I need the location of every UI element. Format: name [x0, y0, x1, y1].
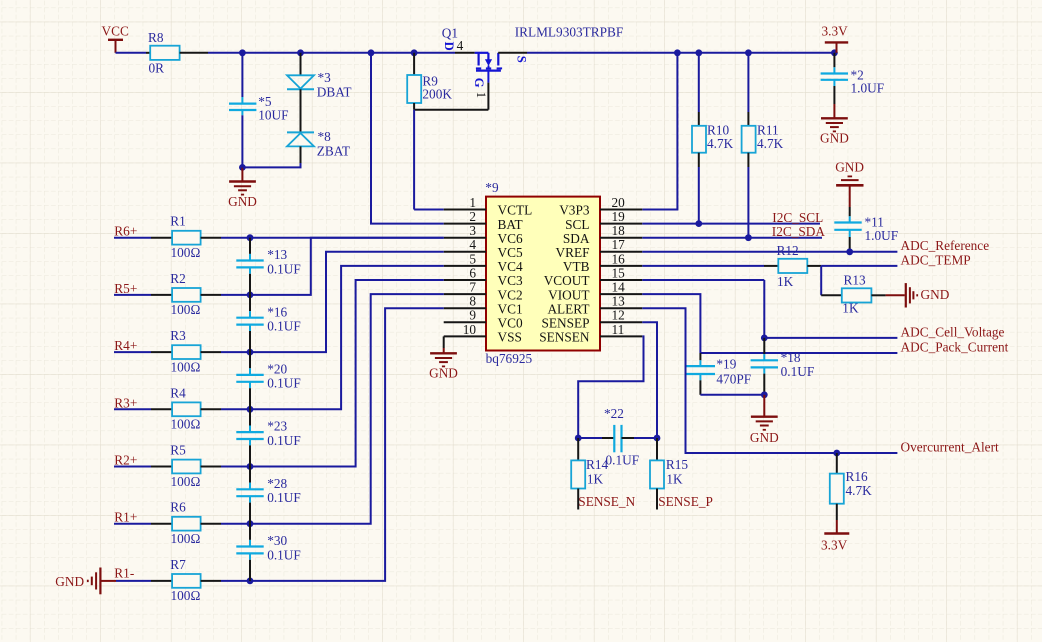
node BAT [368, 49, 375, 56]
capacitor *20 [236, 362, 301, 391]
resistor R1 [170, 214, 200, 260]
wire C22 left [578, 437, 614, 439]
svg-text:13: 13 [612, 294, 626, 309]
svg-text:GND: GND [921, 287, 950, 302]
wire C22 right [622, 437, 658, 439]
svg-text:R14: R14 [586, 457, 609, 472]
wire R3 out [201, 351, 250, 353]
svg-text:*30: *30 [267, 533, 287, 548]
wire R7 out [201, 580, 250, 582]
power 3.3V top [822, 24, 849, 53]
capacitor *28 [236, 476, 301, 505]
svg-text:1.0UF: 1.0UF [865, 228, 899, 243]
wire cap *16 top [249, 295, 251, 318]
wire R15 SENSE_P [656, 489, 658, 510]
svg-text:8: 8 [469, 294, 476, 309]
wire C11 to VREF [849, 230, 851, 252]
resistor R10 [692, 123, 734, 153]
svg-text:IRLML9303TRPBF: IRLML9303TRPBF [515, 24, 624, 39]
ground GND (VSS) [429, 353, 458, 380]
wire cap *30 top [249, 524, 251, 547]
wire rail to R11 [747, 53, 749, 126]
svg-text:ADC_Pack_Current: ADC_Pack_Current [901, 339, 1009, 354]
svg-text:1K: 1K [777, 274, 794, 289]
svg-text:1.0UF: 1.0UF [851, 81, 885, 96]
node R4+ label [114, 338, 137, 353]
power 3.3V bottom [821, 534, 849, 553]
wire R4 out [201, 408, 250, 410]
svg-text:ALERT: ALERT [547, 301, 589, 316]
resistor R13 [842, 273, 872, 316]
svg-text:R7: R7 [170, 557, 186, 572]
svg-text:4: 4 [457, 38, 464, 53]
wire R5+ [114, 294, 172, 296]
svg-text:1K: 1K [842, 301, 859, 316]
wire R13 to gnd [871, 294, 904, 296]
svg-text:16: 16 [612, 251, 626, 266]
svg-text:100Ω: 100Ω [171, 302, 201, 317]
node R2+ label [114, 453, 137, 468]
wire D8 to gnd node [242, 146, 300, 167]
wire C2 to gnd [833, 80, 835, 119]
svg-text:D: D [442, 42, 456, 51]
pin 11 SENSEN [539, 322, 642, 345]
svg-text:DBAT: DBAT [317, 85, 352, 100]
resistor R4 [170, 385, 200, 431]
svg-text:VSS: VSS [498, 330, 522, 345]
svg-text:*3: *3 [318, 70, 332, 85]
svg-text:*23: *23 [267, 419, 287, 434]
svg-text:VC5: VC5 [498, 245, 523, 260]
svg-text:ADC_TEMP: ADC_TEMP [901, 252, 971, 267]
svg-text:14: 14 [612, 280, 626, 295]
node R10 SCL [695, 220, 702, 227]
diode *8 ZBAT [287, 129, 350, 158]
diode *3 DBAT [287, 70, 352, 99]
svg-text:0.1UF: 0.1UF [267, 433, 301, 448]
wire Q1 source to rail2 [498, 52, 834, 54]
svg-text:R13: R13 [844, 273, 867, 288]
pin 14 VIOUT [548, 280, 642, 303]
pin 8 VC1 [444, 294, 523, 317]
node ADC_Cell_Voltage label [901, 324, 1005, 339]
svg-text:18: 18 [612, 223, 626, 238]
op-amp U*9 bq76925 body [485, 180, 600, 366]
svg-text:Overcurrent_Alert: Overcurrent_Alert [901, 439, 1000, 454]
svg-text:R16: R16 [846, 469, 869, 484]
wire VC1 [250, 294, 444, 524]
wire ALERT [642, 308, 897, 453]
transistor Q1 [442, 26, 529, 98]
svg-text:R4+: R4+ [114, 338, 137, 353]
wire SDA [642, 237, 822, 239]
svg-text:VC6: VC6 [498, 231, 523, 246]
wire VREF [642, 251, 897, 253]
svg-text:bq76925: bq76925 [486, 351, 533, 366]
wire C19 lead top [699, 353, 701, 366]
svg-text:0.1UF: 0.1UF [781, 364, 815, 379]
svg-text:12: 12 [612, 308, 625, 323]
node C11 VREF [846, 248, 853, 255]
svg-text:9: 9 [469, 308, 476, 323]
pin 5 VC4 [444, 251, 523, 274]
svg-text:0.1UF: 0.1UF [267, 376, 301, 391]
wire cap *20 bot [249, 382, 251, 410]
node R16 top [833, 450, 840, 457]
capacitor *18 [751, 350, 815, 379]
node row1 [247, 234, 254, 241]
node R15 top [654, 435, 661, 442]
svg-text:R4: R4 [170, 385, 186, 400]
pin 1 VCTL [444, 195, 533, 218]
wire to R16 [836, 453, 838, 474]
capacitor *30 [236, 533, 301, 562]
svg-text:G: G [472, 78, 486, 88]
wire rail to Q1 drain [455, 52, 475, 54]
svg-text:R5+: R5+ [114, 281, 137, 296]
capacitor *16 [236, 304, 301, 333]
capacitor *19 [686, 356, 751, 386]
resistor R14 [571, 457, 608, 489]
pin 2 BAT [444, 209, 523, 232]
node R6+ label [114, 224, 137, 239]
resistor R16 [830, 469, 872, 504]
pin 10 VSS [444, 322, 522, 345]
svg-text:R1-: R1- [114, 566, 134, 581]
wire VSS to gnd [443, 336, 445, 353]
svg-text:10: 10 [463, 322, 477, 337]
pin 12 SENSEP [541, 308, 642, 331]
svg-text:3.3V: 3.3V [822, 24, 849, 39]
pin 16 VTB [563, 251, 642, 274]
ground GND (C2) [820, 118, 849, 145]
wire cap *13 top [249, 238, 251, 261]
svg-text:SCL: SCL [565, 217, 589, 232]
svg-text:ZBAT: ZBAT [317, 143, 350, 158]
svg-text:100Ω: 100Ω [171, 245, 201, 260]
wire rail to D3 [300, 53, 302, 76]
resistor R7 [170, 557, 200, 603]
node row6 [247, 520, 254, 527]
svg-text:3: 3 [469, 223, 476, 238]
svg-text:11: 11 [612, 322, 625, 337]
pin 15 VCOUT [544, 265, 643, 288]
node cap5 [239, 49, 246, 56]
svg-text:200K: 200K [422, 86, 452, 101]
svg-text:1: 1 [469, 195, 476, 210]
svg-text:0.1UF: 0.1UF [267, 547, 301, 562]
wire cap *28 top [249, 467, 251, 490]
svg-text:VCOUT: VCOUT [544, 273, 590, 288]
svg-text:*13: *13 [267, 247, 287, 262]
svg-text:R12: R12 [777, 243, 799, 258]
svg-text:V3P3: V3P3 [559, 203, 590, 218]
wire VCOUT [642, 280, 764, 338]
pin 20 V3P3 [559, 195, 642, 218]
svg-text:S: S [515, 56, 529, 63]
svg-text:ADC_Cell_Voltage: ADC_Cell_Voltage [901, 324, 1005, 339]
ground GND (C18/C19) [750, 395, 779, 445]
node ADC_Pack_Current label [901, 339, 1009, 354]
wire R14 SENSE_N [577, 489, 579, 510]
svg-text:*20: *20 [267, 362, 287, 377]
node R10 top [695, 49, 702, 56]
wire SCL [642, 223, 820, 225]
resistor R5 [170, 443, 200, 489]
svg-text:0R: 0R [149, 61, 165, 76]
node row3 [247, 349, 254, 356]
svg-text:GND: GND [228, 194, 257, 209]
svg-text:BAT: BAT [498, 217, 523, 232]
svg-text:SENSEP: SENSEP [541, 316, 589, 331]
svg-text:SDA: SDA [563, 231, 590, 246]
wire ADC_Cell_Voltage [764, 337, 897, 339]
wire D3 to D8 [300, 89, 302, 132]
svg-text:SENSEN: SENSEN [539, 330, 590, 345]
svg-text:0.1UF: 0.1UF [267, 261, 301, 276]
wire R14 top lead [577, 438, 579, 460]
wire SENSEP [642, 322, 657, 438]
capacitor *23 [236, 419, 301, 448]
wire V3P3 [642, 53, 677, 210]
ground GND (C5) [228, 167, 257, 208]
wire cap *30 bot [249, 553, 251, 581]
svg-text:VC0: VC0 [498, 316, 523, 331]
svg-text:VC4: VC4 [498, 259, 523, 274]
wire R12 to R13 [821, 266, 842, 295]
wire C5 to gnd node [241, 110, 243, 167]
svg-text:R3: R3 [170, 328, 186, 343]
wire BAT [371, 53, 444, 224]
svg-text:100Ω: 100Ω [171, 474, 201, 489]
svg-text:3.3V: 3.3V [821, 537, 848, 552]
capacitor *22 [604, 406, 639, 468]
ground GND (R1-) [55, 568, 116, 595]
wire R1 out [201, 237, 250, 239]
svg-text:SENSE_N: SENSE_N [578, 494, 635, 509]
svg-text:0.1UF: 0.1UF [267, 490, 301, 505]
wire VTB to R12 [642, 265, 778, 267]
node R11 SDA [745, 234, 752, 241]
pin 6 VC3 [444, 265, 523, 288]
svg-text:R3+: R3+ [114, 395, 137, 410]
node row7 [247, 578, 254, 585]
wire VCC to R8 [116, 52, 151, 54]
svg-text:*9: *9 [485, 180, 499, 195]
wire VC6 [250, 237, 444, 239]
pin 7 VC2 [444, 280, 523, 303]
svg-text:470PF: 470PF [716, 372, 751, 387]
svg-text:GND: GND [835, 159, 864, 174]
wire VC5 [250, 238, 444, 295]
resistor R15 [650, 457, 688, 489]
svg-text:0.1UF: 0.1UF [267, 319, 301, 334]
svg-text:1: 1 [474, 92, 488, 98]
svg-text:GND: GND [55, 574, 84, 589]
node I2C_SCL label [772, 210, 823, 225]
pin 17 VREF [556, 237, 643, 260]
pin 9 VC0 [444, 308, 523, 331]
svg-text:4: 4 [469, 237, 476, 252]
wire SENSEN [578, 336, 643, 438]
svg-text:*8: *8 [318, 129, 332, 144]
node diodes [297, 49, 304, 56]
wire R16 to 3.3V [836, 504, 838, 534]
node R14 top [575, 435, 582, 442]
wire R8 to rail [180, 52, 455, 54]
svg-text:VTB: VTB [563, 259, 590, 274]
node row4 [247, 406, 254, 413]
node SENSE_N label [578, 494, 635, 509]
svg-text:7: 7 [469, 280, 476, 295]
svg-text:I2C_SCL: I2C_SCL [772, 210, 823, 225]
wire cap *16 bot [249, 325, 251, 353]
svg-text:0.1UF: 0.1UF [606, 453, 640, 468]
node R11 top [745, 49, 752, 56]
node row5 [247, 463, 254, 470]
svg-text:19: 19 [612, 209, 626, 224]
resistor R9 [407, 73, 452, 103]
wire gnd to C11 [849, 207, 851, 223]
wire R15 top lead [656, 438, 658, 460]
svg-text:VC2: VC2 [498, 287, 523, 302]
wire cap *23 bot [249, 439, 251, 467]
pin 18 SDA [563, 223, 642, 246]
svg-text:2: 2 [469, 209, 476, 224]
svg-text:VC1: VC1 [498, 301, 523, 316]
wire VC2 [250, 280, 444, 467]
svg-text:6: 6 [469, 265, 476, 280]
svg-text:R6+: R6+ [114, 224, 137, 239]
svg-text:ADC_Reference: ADC_Reference [901, 238, 990, 253]
wire VC4 [250, 252, 444, 352]
node row2 [247, 292, 254, 299]
resistor R8 [148, 30, 180, 76]
svg-text:10UF: 10UF [258, 108, 288, 123]
wire VIOUT [642, 294, 700, 353]
node C1819 gnd [761, 391, 768, 398]
wire rail to R10 [698, 53, 700, 126]
wire R2+ [114, 466, 172, 468]
power VCC [102, 24, 129, 53]
wire rail to C5 [241, 53, 243, 104]
svg-text:20: 20 [612, 195, 626, 210]
node R9 [411, 49, 418, 56]
svg-text:VIOUT: VIOUT [548, 287, 589, 302]
capacitor *2 [821, 68, 885, 96]
svg-text:SENSE_P: SENSE_P [658, 494, 713, 509]
svg-text:1K: 1K [587, 471, 604, 486]
svg-text:100Ω: 100Ω [171, 359, 201, 374]
ground GND (C11) [835, 159, 864, 207]
svg-text:VCC: VCC [102, 24, 129, 39]
wire R4+ [114, 351, 172, 353]
svg-text:GND: GND [820, 131, 849, 146]
svg-text:100Ω: 100Ω [171, 417, 201, 432]
svg-text:1K: 1K [666, 471, 683, 486]
svg-text:R8: R8 [148, 30, 164, 45]
svg-text:100Ω: 100Ω [171, 588, 201, 603]
node R5+ label [114, 281, 137, 296]
wire R1+ [114, 523, 172, 525]
svg-text:17: 17 [612, 237, 626, 252]
svg-text:*28: *28 [267, 476, 287, 491]
node ADC_Reference label [901, 238, 990, 253]
resistor R2 [170, 271, 200, 317]
wire rail to C2 [833, 53, 835, 74]
capacitor *13 [236, 247, 301, 276]
svg-text:*19: *19 [716, 356, 736, 371]
wire R3+ [114, 408, 172, 410]
wire cap *20 top [249, 352, 251, 375]
svg-text:R1+: R1+ [114, 510, 137, 525]
wire R5 out [201, 466, 250, 468]
node I2C_SDA label [772, 224, 826, 239]
wire R11 to SDA [747, 153, 749, 238]
svg-text:100Ω: 100Ω [171, 531, 201, 546]
node Overcurrent_Alert label [901, 439, 1000, 454]
wire R6+ [114, 237, 172, 239]
wire R9 to pin1 [414, 110, 444, 210]
resistor R6 [170, 500, 200, 546]
wire cap *28 bot [249, 496, 251, 524]
wire C19 lead bot [700, 374, 764, 395]
svg-text:5: 5 [469, 251, 476, 266]
wire R2 out [201, 294, 250, 296]
wire C18 lead bot [763, 367, 765, 394]
label IRLML9303TRPBF [515, 24, 624, 39]
wire C18 lead top [763, 338, 765, 360]
wire R12 to ADC_TEMP [807, 265, 897, 267]
svg-text:*11: *11 [865, 214, 884, 229]
node C18 top [761, 335, 768, 342]
svg-text:VREF: VREF [556, 245, 590, 260]
wire cap *23 top [249, 409, 251, 432]
wire rail to R9 [413, 53, 415, 75]
svg-text:I2C_SDA: I2C_SDA [772, 224, 826, 239]
svg-text:R6: R6 [170, 500, 186, 515]
wire R10 to SCL [698, 153, 700, 224]
svg-text:GND: GND [750, 430, 779, 445]
wire ADC_Pack_Current [700, 352, 897, 354]
wire VC3 [250, 266, 444, 409]
node 3V3 [831, 49, 838, 56]
svg-text:R15: R15 [666, 457, 689, 472]
svg-text:R2+: R2+ [114, 453, 137, 468]
svg-text:*16: *16 [267, 304, 287, 319]
node SENSE_P label [658, 494, 713, 509]
resistor R11 [742, 123, 784, 153]
svg-text:R5: R5 [170, 443, 186, 458]
wire R9 to gate/VCTL [414, 83, 488, 110]
svg-text:R2: R2 [170, 271, 186, 286]
svg-text:4.7K: 4.7K [846, 483, 873, 498]
svg-text:R1: R1 [170, 214, 186, 229]
svg-text:*18: *18 [781, 350, 801, 365]
capacitor *11 [834, 214, 898, 243]
node gnd5 [239, 164, 246, 171]
pin 3 VC6 [444, 223, 523, 246]
svg-text:VCTL: VCTL [498, 203, 533, 218]
capacitor *5 [229, 94, 288, 122]
wire R6 out [201, 523, 250, 525]
svg-text:15: 15 [612, 265, 626, 280]
svg-text:*22: *22 [604, 406, 624, 421]
node V3P3 [674, 49, 681, 56]
svg-text:4.7K: 4.7K [757, 136, 784, 151]
svg-text:GND: GND [429, 365, 458, 380]
node R3+ label [114, 395, 137, 410]
